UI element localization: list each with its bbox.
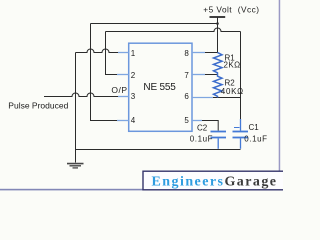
- svg-text:0.1uF: 0.1uF: [244, 135, 267, 144]
- svg-text:40KΩ: 40KΩ: [221, 87, 244, 96]
- svg-text:NE 555: NE 555: [143, 82, 176, 93]
- svg-text:8: 8: [184, 49, 189, 58]
- svg-text:2KΩ: 2KΩ: [224, 61, 241, 70]
- svg-text:Pulse Produced: Pulse Produced: [8, 101, 68, 111]
- svg-text:3: 3: [131, 92, 136, 101]
- svg-text:EngineersGarage: EngineersGarage: [152, 174, 278, 189]
- svg-text:5: 5: [184, 116, 189, 125]
- svg-text:6: 6: [184, 92, 189, 101]
- svg-text:2: 2: [131, 71, 136, 80]
- svg-text:R2: R2: [225, 78, 236, 87]
- svg-text:C2: C2: [197, 123, 208, 132]
- svg-text:O/P: O/P: [111, 85, 127, 95]
- svg-text:4: 4: [131, 116, 136, 125]
- svg-text:(Vcc): (Vcc): [238, 4, 260, 14]
- svg-text:1: 1: [131, 49, 136, 58]
- svg-text:+5 Volt: +5 Volt: [203, 4, 232, 14]
- svg-text:0.1uF: 0.1uF: [190, 135, 213, 144]
- svg-text:7: 7: [184, 71, 189, 80]
- svg-text:C1: C1: [249, 123, 260, 132]
